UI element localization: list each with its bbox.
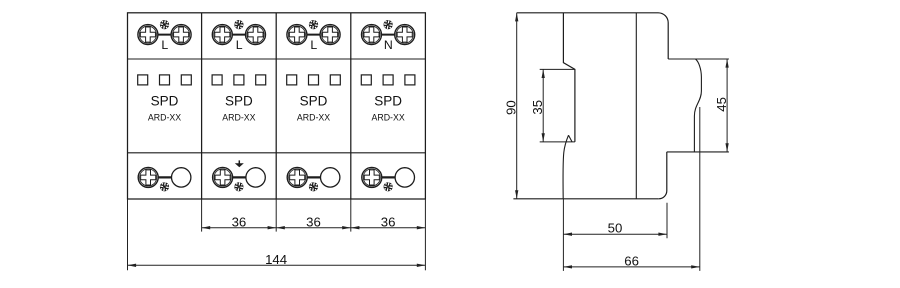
module 1 bottom terminal wire link: [155, 176, 174, 178]
side view bottom edge with 90 extension: [513, 198, 658, 200]
module 2 top terminal screw left: [212, 25, 232, 45]
module 2 bottom terminal screw: [213, 167, 233, 187]
module 2 indicator window 2: [234, 75, 244, 85]
module 3 top terminal screw left: [287, 25, 307, 45]
dimension 50 body depth: [563, 221, 667, 236]
module 4 indicator window 3: [405, 75, 415, 85]
side view top edge with 90 extension: [517, 13, 669, 59]
module 4 bottom terminal screw: [362, 167, 382, 187]
side view lower right edge: [659, 152, 667, 199]
module 4 indicator window 2: [383, 75, 393, 85]
module 1 indicator window 2: [160, 75, 170, 85]
module 2 top terminal wire link: [230, 34, 247, 36]
module 1 indicator window 1: [138, 75, 148, 85]
module divider line 1: [201, 13, 203, 199]
dimension 36 third span: [351, 214, 426, 229]
svg-text:SPD: SPD: [374, 93, 402, 108]
module 4 top terminal wire link: [380, 34, 397, 36]
dimension 144 overall width: [128, 252, 426, 267]
extension line divider 2 for 36: [275, 199, 277, 232]
module divider line 2: [275, 13, 277, 199]
module 2 top terminal screw right: [246, 25, 266, 45]
horizontal divider bottom section: [128, 152, 426, 154]
module 3 top small screw: [309, 20, 319, 30]
module 1 bottom terminal screw: [138, 167, 158, 187]
dimension 36 first span: [202, 214, 277, 229]
svg-text:36: 36: [306, 214, 321, 229]
module 2 release arrow marker: [235, 160, 244, 167]
svg-text:ARD-XX: ARD-XX: [371, 113, 404, 123]
svg-text:144: 144: [265, 252, 287, 267]
extension line right border for 36 and 144: [424, 199, 426, 270]
module 1 top terminal screw right: [171, 25, 191, 45]
module 3 indicator window 3: [330, 75, 340, 85]
extension line divider 1 for 36: [201, 199, 203, 232]
svg-text:N: N: [384, 38, 393, 52]
module 4 top terminal screw left: [362, 25, 382, 45]
module 2 bottom small screw: [234, 182, 244, 192]
module 2 top small screw: [234, 20, 244, 30]
module 4 top terminal screw right: [395, 25, 415, 45]
module 1 top terminal screw left: [138, 25, 158, 45]
module 3 indicator window 1: [287, 75, 297, 85]
module 4 top small screw: [383, 20, 393, 30]
svg-text:90: 90: [503, 100, 518, 115]
module 2 indicator window 1: [212, 75, 222, 85]
module 3 indicator window 2: [309, 75, 319, 85]
side view upper step line with 45 extension: [668, 58, 729, 60]
side view din slot top line with 35 extension: [540, 68, 575, 70]
svg-text:50: 50: [608, 221, 623, 236]
extension line body front for 50: [666, 203, 668, 238]
dimension 36 second span: [276, 214, 351, 229]
module 4 indicator window 1: [361, 75, 371, 85]
module 2 indicator window 3: [256, 75, 266, 85]
side view din clip tooth: [569, 135, 573, 142]
side view body parting line: [635, 13, 637, 199]
side view din slot bottom line with 35 extension: [540, 141, 575, 143]
extension line rear for 50 and 66: [562, 199, 564, 271]
module 1 top terminal wire link: [156, 34, 173, 36]
module 4 bottom terminal wire link: [379, 176, 398, 178]
module 3 bottom terminal wire link: [304, 176, 323, 178]
dimension 45 front cover height: [714, 59, 729, 152]
svg-text:66: 66: [624, 253, 639, 268]
dimension 66 overall depth: [563, 253, 699, 268]
svg-text:SPD: SPD: [300, 93, 328, 108]
extension line cover front for 66: [699, 107, 701, 271]
module 1 bottom small screw: [160, 182, 170, 192]
module 3 bottom small screw: [309, 182, 319, 192]
svg-text:SPD: SPD: [151, 93, 179, 108]
module 3 top terminal screw right: [320, 25, 340, 45]
module 1 top small screw: [160, 20, 170, 30]
module 2 bottom plain circle terminal: [246, 168, 265, 187]
svg-text:35: 35: [530, 100, 545, 115]
svg-text:45: 45: [714, 97, 729, 112]
module 1 bottom plain circle terminal: [172, 168, 191, 187]
module divider line 3: [350, 13, 352, 199]
side view lower step line with 45 extension: [667, 151, 729, 153]
svg-text:36: 36: [381, 214, 396, 229]
module 3 bottom plain circle terminal: [321, 168, 340, 187]
extension line left border for 144: [127, 199, 129, 270]
dimension 35 din slot height: [530, 69, 545, 141]
svg-text:L: L: [236, 38, 243, 52]
side view din clip lower edge: [563, 135, 568, 199]
svg-text:ARD-XX: ARD-XX: [297, 113, 330, 123]
svg-text:L: L: [310, 38, 317, 52]
dimension 90 overall height: [503, 13, 518, 199]
module 4 bottom plain circle terminal: [395, 168, 414, 187]
svg-text:ARD-XX: ARD-XX: [222, 113, 255, 123]
module 4 bottom small screw: [383, 182, 393, 192]
side view back edge upper: [563, 13, 575, 142]
module 1 indicator window 3: [181, 75, 191, 85]
front view outer enclosure outline: [128, 13, 426, 199]
svg-text:ARD-XX: ARD-XX: [148, 113, 181, 123]
module 2 bottom terminal wire link: [229, 176, 248, 178]
extension line divider 3 for 36: [350, 199, 352, 232]
horizontal divider top section: [128, 58, 426, 60]
svg-text:L: L: [161, 38, 168, 52]
svg-text:36: 36: [232, 214, 247, 229]
svg-text:SPD: SPD: [225, 93, 253, 108]
side view front cover curved profile: [694, 59, 701, 152]
module 3 top terminal wire link: [305, 34, 322, 36]
module 3 bottom terminal screw: [287, 167, 307, 187]
